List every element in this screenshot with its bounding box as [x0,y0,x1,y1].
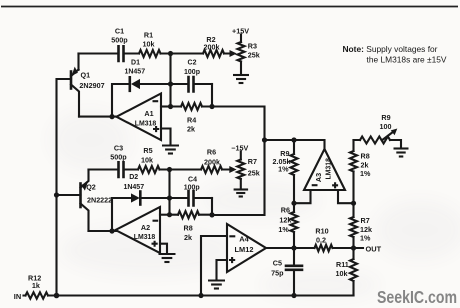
svg-text:A3: A3 [314,173,323,182]
capacitor C3 [119,162,124,177]
svg-text:12k: 12k [279,215,291,224]
svg-text:Q1: Q1 [81,71,91,80]
capacitor C4 [170,197,213,199]
ground A4 [208,281,225,289]
svg-text:75p: 75p [271,269,284,278]
svg-text:C3: C3 [114,144,123,153]
svg-text:100p: 100p [184,184,200,191]
svg-text:SeekIC.com: SeekIC.com [377,287,457,307]
transistor Q2 2N2222 [79,184,82,208]
node A1 output [109,114,114,119]
ground A1 [162,146,179,154]
wire D1 branch vertical [112,84,129,117]
svg-text:10k: 10k [141,156,153,165]
resistor R12 [24,294,57,296]
svg-text:10k: 10k [143,40,155,49]
node bottom rail / C5 [291,293,296,298]
svg-text:C5: C5 [273,259,282,268]
svg-text:the LM318s are ±15V: the LM318s are ±15V [367,55,447,65]
node R4-C2 right junction [209,104,214,109]
svg-text:LM318: LM318 [134,234,156,241]
svg-text:1%: 1% [360,169,371,178]
node Q2 base [54,192,59,197]
resistor R8 2k [170,214,213,216]
capacitor C5 [293,248,295,296]
wire left base bus [55,79,57,296]
svg-text:A4: A4 [239,234,249,243]
svg-text:500p: 500p [110,153,127,162]
wire node X bus to A3 line [212,107,265,216]
resistor R4 [171,105,213,107]
resistor R6 12k [293,203,295,248]
wire bottom rail [56,294,354,296]
svg-text:R8: R8 [361,151,370,160]
svg-text:R7: R7 [248,157,257,166]
svg-text:100p: 100p [184,69,200,76]
wire A3 output line [265,140,325,151]
wire A4 minus to bottom rail [201,236,227,296]
svg-text:2N2907: 2N2907 [79,81,104,90]
potentiometer R9 100 [354,140,402,147]
op-amp A1 LM318 [117,94,162,141]
node OUT [351,245,356,250]
wire A1 + to ground [161,129,171,144]
svg-text:1N457: 1N457 [124,69,145,76]
node R1-R2 junction [168,51,173,56]
node R6 bottom / C5 top [291,245,296,250]
svg-text:LM318: LM318 [135,121,157,128]
resistor R2 [203,50,224,57]
svg-text:0.2: 0.2 [316,235,326,244]
svg-text:IN: IN [14,292,21,301]
node A2 output [109,228,114,233]
svg-text:2k: 2k [361,160,369,169]
node A2 inverting input [167,212,172,217]
node A3 plus / R7 12k top [351,201,356,206]
svg-text:LM12: LM12 [235,245,254,254]
resistor R9 2.05k [293,140,295,203]
svg-text:1%: 1% [278,225,289,234]
wire top rail [79,52,232,54]
svg-text:500p: 500p [111,36,128,45]
node A3 minus / R6 12k top [291,201,296,206]
svg-text:R9: R9 [381,113,390,122]
svg-text:25k: 25k [248,169,260,178]
svg-text:R4: R4 [187,115,196,124]
ground under R3 [233,75,249,83]
svg-text:1N457: 1N457 [123,184,144,191]
svg-text:D1: D1 [131,60,140,67]
resistor R1 [139,50,161,57]
svg-text:OUT: OUT [366,245,382,254]
svg-text:R6: R6 [281,206,290,215]
resistor R11 10k [352,248,354,296]
svg-text:100: 100 [380,122,392,131]
wire D2 branch vertical [112,198,131,231]
svg-text:D2: D2 [129,174,138,181]
svg-text:A1: A1 [144,109,153,118]
diode D2 1N457 [131,193,140,202]
ground A2 [159,254,176,262]
resistor R7 12k [352,203,354,248]
node R8-C4 right junction [209,212,214,217]
wire middle rail [89,168,232,170]
svg-text:C1: C1 [115,26,124,35]
svg-text:R5: R5 [143,146,152,155]
wiper arrow into R7 pot [229,166,236,173]
capacitor C1 [119,46,124,61]
svg-text:R1: R1 [144,31,153,40]
resistor R5 [138,166,160,173]
capacitor C2 [171,83,213,85]
node bottom rail / A4 minus [198,293,203,298]
wire Q1 collector to A1 output [79,116,117,118]
svg-text:C4: C4 [188,176,197,183]
svg-text:A2: A2 [141,223,150,232]
wire A2 + to ground [160,244,167,252]
svg-text:R6: R6 [207,147,216,156]
wire inverting bus A1 [169,54,171,107]
node D1-C2 junction [168,81,173,86]
ground under R7 pot [234,190,249,197]
svg-text:C2: C2 [188,60,197,67]
node A1 inverting input [168,104,173,109]
svg-text:10k: 10k [336,269,348,278]
svg-text:LM318: LM318 [325,158,332,180]
wire inverting bus A2 [168,170,170,215]
svg-text:Note: Supply voltages for: Note: Supply voltages for [343,44,438,54]
svg-text:25k: 25k [248,51,260,60]
svg-text:R8: R8 [184,224,193,233]
svg-text:1%: 1% [278,165,289,174]
node X top of A3 output line [262,137,267,142]
op-amp A2 LM318 [116,207,161,253]
wire A4 plus to ground [217,260,228,279]
wire A3 minus stub [294,190,311,203]
svg-text:R3: R3 [248,41,257,50]
wiper arrow into R3 [230,50,237,57]
svg-text:200k: 200k [204,43,220,52]
svg-text:1%: 1% [360,233,371,242]
svg-text:Q2: Q2 [86,183,96,192]
svg-text:2k: 2k [187,125,195,134]
op-amp A3 LM318 [304,149,345,190]
node R5-R6 junction [167,167,172,172]
wire A3 plus stub [338,190,354,203]
ground right of R9 100 [394,149,409,157]
wire Q2 collector to A2 output [89,230,117,232]
svg-text:R7: R7 [361,216,370,225]
transistor Q1 2N2907 [77,54,79,70]
node D2-C4 junction [167,195,172,200]
svg-text:1k: 1k [32,281,40,290]
svg-text:R11: R11 [336,260,349,269]
svg-text:2N2222: 2N2222 [87,195,112,204]
resistor R8 2k 1% [352,140,354,203]
op-amp A4 LM12 [227,224,266,272]
node R9 top [291,137,296,142]
resistor R6 200k [201,166,222,173]
resistor R10 0.2 [315,245,333,251]
svg-text:2k: 2k [184,233,192,242]
svg-text:200k: 200k [204,158,220,167]
diode D1 1N457 [129,77,132,91]
wire A4 output line [266,247,363,249]
node bottom rail / left bus [54,293,60,299]
